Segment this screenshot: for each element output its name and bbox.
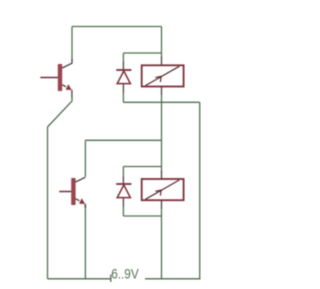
svg-text:6..9V: 6..9V [111,266,139,282]
